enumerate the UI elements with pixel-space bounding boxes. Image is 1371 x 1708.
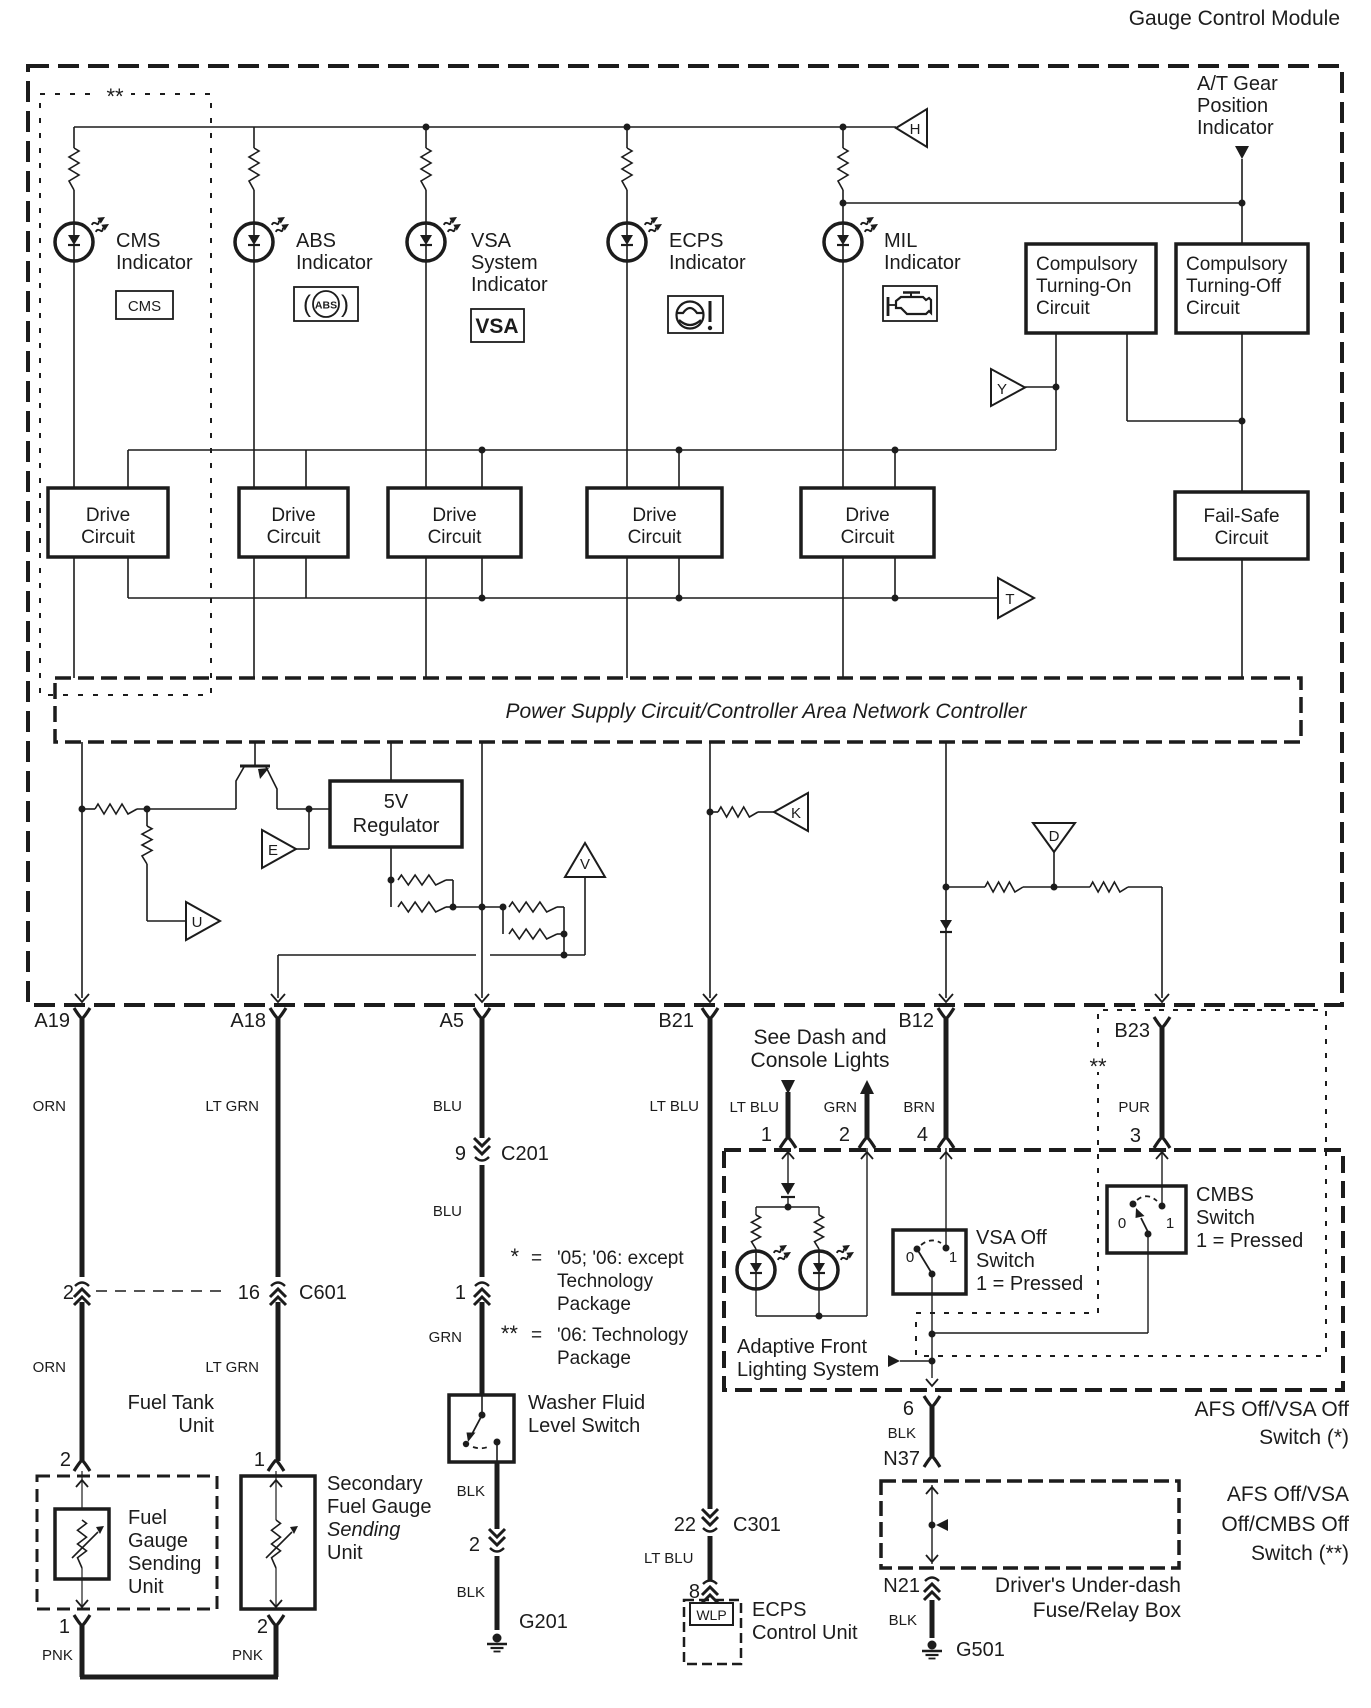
svg-text:AFS Off/VSA Off: AFS Off/VSA Off <box>1195 1398 1350 1421</box>
svg-text:Unit: Unit <box>178 1415 214 1437</box>
svg-text:3: 3 <box>1130 1125 1141 1147</box>
svg-text:9: 9 <box>455 1143 466 1165</box>
svg-text:B12: B12 <box>898 1010 934 1032</box>
svg-text:Circuit: Circuit <box>1215 528 1270 549</box>
svg-text:Switch (**): Switch (**) <box>1251 1542 1349 1565</box>
svg-text:Position: Position <box>1197 95 1268 117</box>
svg-text:Adaptive Front: Adaptive Front <box>737 1336 868 1358</box>
svg-text:BRN: BRN <box>903 1099 935 1116</box>
svg-text:Secondary: Secondary <box>327 1473 423 1495</box>
svg-text:1: 1 <box>1166 1215 1174 1232</box>
svg-text:Indicator: Indicator <box>669 252 746 274</box>
svg-text:Fuel Tank: Fuel Tank <box>128 1392 215 1414</box>
svg-text:=: = <box>531 1248 542 1269</box>
svg-text:ORN: ORN <box>33 1098 66 1115</box>
svg-text:N37: N37 <box>883 1448 920 1470</box>
svg-text:Drive: Drive <box>632 505 676 526</box>
svg-text:=: = <box>531 1325 542 1346</box>
svg-text:Turning-Off: Turning-Off <box>1186 276 1282 297</box>
svg-text:BLK: BLK <box>457 1584 485 1601</box>
svg-text:'05; '06: except: '05; '06: except <box>557 1248 684 1269</box>
svg-text:See Dash and: See Dash and <box>753 1026 886 1049</box>
svg-text:BLU: BLU <box>433 1098 462 1115</box>
svg-text:A5: A5 <box>440 1010 464 1032</box>
svg-text:BLK: BLK <box>888 1425 916 1442</box>
svg-text:VSA: VSA <box>471 230 512 252</box>
svg-text:Indicator: Indicator <box>471 274 548 296</box>
svg-text:CMS: CMS <box>116 230 160 252</box>
svg-text:Gauge: Gauge <box>128 1530 188 1552</box>
svg-text:BLK: BLK <box>457 1483 485 1500</box>
svg-text:AFS Off/VSA: AFS Off/VSA <box>1227 1483 1349 1506</box>
svg-text:Indicator: Indicator <box>1197 117 1274 139</box>
svg-text:1 = Pressed: 1 = Pressed <box>976 1273 1083 1295</box>
svg-text:Power Supply Circuit/Controlle: Power Supply Circuit/Controller Area Net… <box>506 700 1028 723</box>
svg-text:2: 2 <box>60 1449 71 1471</box>
svg-text:Driver's Under-dash: Driver's Under-dash <box>995 1574 1181 1597</box>
svg-text:5V: 5V <box>384 791 409 813</box>
svg-text:Sending: Sending <box>128 1553 201 1575</box>
svg-text:Circuit: Circuit <box>428 527 483 548</box>
svg-text:Circuit: Circuit <box>81 527 136 548</box>
svg-text:Y: Y <box>997 381 1007 398</box>
svg-text:BLU: BLU <box>433 1203 462 1220</box>
svg-text:**: ** <box>1089 1054 1107 1079</box>
svg-text:ABS: ABS <box>296 230 336 252</box>
svg-text:BLK: BLK <box>889 1612 917 1629</box>
svg-text:Drive: Drive <box>845 505 889 526</box>
svg-text:16: 16 <box>238 1282 260 1304</box>
svg-text:2: 2 <box>63 1282 74 1304</box>
svg-text:Circuit: Circuit <box>267 527 322 548</box>
svg-text:Switch: Switch <box>1196 1207 1255 1229</box>
svg-text:*: * <box>510 1244 519 1269</box>
svg-text:Level Switch: Level Switch <box>528 1415 640 1437</box>
svg-text:PNK: PNK <box>42 1647 73 1664</box>
svg-text:T: T <box>1005 591 1014 608</box>
svg-text:Circuit: Circuit <box>628 527 683 548</box>
svg-text:WLP: WLP <box>696 1607 726 1623</box>
svg-text:K: K <box>791 805 801 822</box>
svg-text:Circuit: Circuit <box>1036 298 1091 319</box>
svg-text:C301: C301 <box>733 1514 781 1536</box>
svg-text:6: 6 <box>903 1398 914 1420</box>
svg-text:'06: Technology: '06: Technology <box>557 1325 689 1346</box>
svg-text:Compulsory: Compulsory <box>1186 254 1288 275</box>
svg-text:1: 1 <box>761 1124 772 1146</box>
svg-text:Package: Package <box>557 1348 631 1369</box>
svg-text:C201: C201 <box>501 1143 549 1165</box>
svg-text:VSA Off: VSA Off <box>976 1227 1047 1249</box>
svg-text:**: ** <box>106 84 124 109</box>
svg-text:Technology: Technology <box>557 1271 654 1292</box>
svg-text:LT BLU: LT BLU <box>650 1098 699 1115</box>
svg-text:Unit: Unit <box>327 1542 363 1564</box>
svg-text:1 = Pressed: 1 = Pressed <box>1196 1230 1303 1252</box>
svg-text:2: 2 <box>257 1616 268 1638</box>
svg-text:B21: B21 <box>658 1010 694 1032</box>
svg-text:V: V <box>580 856 590 873</box>
svg-text:N21: N21 <box>883 1575 920 1597</box>
svg-text:Drive: Drive <box>271 505 315 526</box>
svg-text:2: 2 <box>839 1124 850 1146</box>
svg-text:0: 0 <box>906 1249 914 1266</box>
svg-text:LT BLU: LT BLU <box>644 1550 693 1567</box>
svg-text:ECPS: ECPS <box>752 1599 806 1621</box>
svg-text:1: 1 <box>455 1282 466 1304</box>
svg-text:Gauge Control Module: Gauge Control Module <box>1129 7 1340 30</box>
svg-text:Circuit: Circuit <box>841 527 896 548</box>
svg-text:CMS: CMS <box>128 298 161 315</box>
svg-text:1: 1 <box>949 1249 957 1266</box>
svg-text:Control Unit: Control Unit <box>752 1622 858 1644</box>
svg-text:Turning-On: Turning-On <box>1036 276 1131 297</box>
svg-text:Fuse/Relay Box: Fuse/Relay Box <box>1033 1599 1182 1622</box>
svg-text:Package: Package <box>557 1294 631 1315</box>
svg-text:Fuel: Fuel <box>128 1507 167 1529</box>
svg-text:Fuel Gauge: Fuel Gauge <box>327 1496 432 1518</box>
svg-text:Unit: Unit <box>128 1576 164 1598</box>
svg-text:Drive: Drive <box>86 505 130 526</box>
svg-text:A19: A19 <box>34 1010 70 1032</box>
svg-text:0: 0 <box>1118 1215 1126 1232</box>
svg-text:PUR: PUR <box>1118 1099 1150 1116</box>
svg-text:GRN: GRN <box>429 1329 462 1346</box>
svg-text:Drive: Drive <box>432 505 476 526</box>
svg-text:2: 2 <box>469 1534 480 1556</box>
svg-text:A/T Gear: A/T Gear <box>1197 73 1278 95</box>
svg-text:Compulsory: Compulsory <box>1036 254 1138 275</box>
svg-text:Lighting System: Lighting System <box>737 1359 879 1381</box>
svg-text:D: D <box>1049 828 1060 845</box>
svg-text:MIL: MIL <box>884 230 917 252</box>
svg-text:(: ( <box>303 291 311 318</box>
svg-text:System: System <box>471 252 538 274</box>
svg-text:H: H <box>910 121 921 138</box>
svg-text:Switch (*): Switch (*) <box>1259 1426 1349 1449</box>
svg-text:PNK: PNK <box>232 1647 263 1664</box>
svg-text:Indicator: Indicator <box>296 252 373 274</box>
svg-text:B23: B23 <box>1114 1020 1150 1042</box>
svg-text:22: 22 <box>674 1514 696 1536</box>
svg-text:VSA: VSA <box>475 315 518 338</box>
svg-text:C601: C601 <box>299 1282 347 1304</box>
svg-text:A18: A18 <box>230 1010 266 1032</box>
svg-text:Sending: Sending <box>327 1519 400 1541</box>
svg-text:4: 4 <box>917 1124 928 1146</box>
svg-text:CMBS: CMBS <box>1196 1184 1254 1206</box>
svg-text:**: ** <box>501 1321 519 1346</box>
svg-text:Fail-Safe: Fail-Safe <box>1203 506 1279 527</box>
svg-text:Circuit: Circuit <box>1186 298 1241 319</box>
svg-text:ABS: ABS <box>315 300 337 312</box>
svg-text:): ) <box>341 291 349 318</box>
svg-text:LT BLU: LT BLU <box>730 1099 779 1116</box>
svg-text:1: 1 <box>59 1616 70 1638</box>
svg-text:GRN: GRN <box>824 1099 857 1116</box>
svg-text:U: U <box>192 914 203 931</box>
svg-text:Indicator: Indicator <box>884 252 961 274</box>
svg-text:1: 1 <box>254 1449 265 1471</box>
svg-text:Switch: Switch <box>976 1250 1035 1272</box>
svg-text:ECPS: ECPS <box>669 230 723 252</box>
svg-text:Regulator: Regulator <box>353 815 440 837</box>
svg-text:LT GRN: LT GRN <box>205 1359 259 1376</box>
svg-text:Washer Fluid: Washer Fluid <box>528 1392 645 1414</box>
svg-text:Indicator: Indicator <box>116 252 193 274</box>
svg-text:LT GRN: LT GRN <box>205 1098 259 1115</box>
svg-text:G501: G501 <box>956 1639 1005 1661</box>
svg-text:G201: G201 <box>519 1611 568 1633</box>
svg-text:ORN: ORN <box>33 1359 66 1376</box>
svg-text:E: E <box>268 842 278 859</box>
svg-text:Off/CMBS Off: Off/CMBS Off <box>1221 1513 1349 1536</box>
svg-text:Console Lights: Console Lights <box>751 1049 890 1072</box>
